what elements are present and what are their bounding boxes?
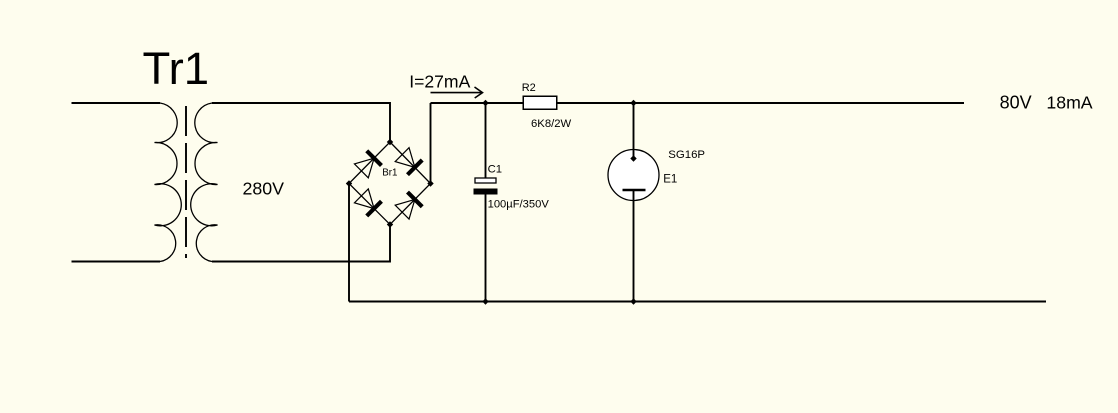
junction E1 bottom (630, 298, 636, 304)
svg-text:E1: E1 (663, 174, 677, 186)
wire bottom rail (349, 301, 1046, 303)
svg-text:80V: 80V (1000, 93, 1032, 113)
wire primary bottom lead (72, 261, 161, 263)
svg-text:280V: 280V (243, 179, 285, 199)
svg-text:100µF/350V: 100µF/350V (488, 199, 550, 211)
svg-text:Br1: Br1 (382, 167, 397, 178)
capacitor C1 negative plate (474, 189, 498, 195)
junction bridge top vertex (387, 139, 393, 145)
wire secondary bottom (212, 225, 390, 262)
junction bridge left vertex (346, 180, 352, 186)
transformer Tr1 primary winding (155, 103, 182, 262)
svg-text:R2: R2 (522, 82, 536, 94)
capacitor C1 positive plate (475, 178, 496, 183)
gas regulator tube E1 envelope (608, 150, 659, 201)
wire C1 top (485, 103, 487, 178)
bridge Br1 diode top-left (354, 151, 381, 178)
wire bridge right vertex to top rail (430, 103, 432, 184)
svg-text:18mA: 18mA (1046, 93, 1092, 113)
junction E1 top (630, 100, 636, 106)
bridge Br1 diode bottom-left (354, 189, 381, 216)
junction C1 top (482, 100, 488, 106)
wire E1 anode (633, 103, 635, 159)
svg-text:6K8/2W: 6K8/2W (531, 118, 572, 130)
svg-text:C1: C1 (488, 164, 502, 176)
bridge Br1 diode bottom-right (395, 192, 422, 219)
junction C1 bottom (482, 298, 488, 304)
svg-text:I=27mA: I=27mA (409, 72, 470, 92)
current arrow head (475, 87, 483, 98)
bridge Br1 diode top-right (395, 147, 422, 174)
junction bridge bottom vertex (387, 221, 393, 227)
svg-text:Tr1: Tr1 (143, 43, 210, 94)
resistor R2 (523, 96, 557, 109)
wire E1 cathode (633, 190, 635, 302)
current arrow line (431, 92, 482, 94)
svg-text:SG16P: SG16P (668, 149, 705, 161)
tube E1 cathode bar (623, 189, 646, 192)
wire primary top lead (72, 102, 161, 104)
transformer Tr1 secondary winding (191, 103, 218, 262)
wire secondary top (212, 103, 390, 142)
wire bridge left vertex to bottom rail (348, 184, 350, 302)
junction bridge right vertex (427, 180, 433, 186)
wire C1 bottom (485, 195, 487, 302)
tube E1 anode pin dot (630, 155, 636, 161)
transformer core (185, 106, 187, 258)
bridge rectifier Br1 diamond (349, 142, 431, 225)
wire top rail (431, 102, 965, 104)
